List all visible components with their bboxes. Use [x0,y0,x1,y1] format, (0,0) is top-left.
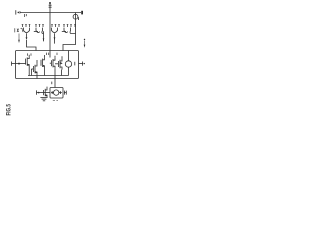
transistor M4 (row2) [58,56,62,75]
svg-text:FIG.5: FIG.5 [7,104,13,116]
ground [40,97,47,100]
node rail-right terminal [81,11,83,15]
numeral 20 with leader arrow [15,28,23,43]
power terminal VDD [49,2,52,7]
wire Q1 drain to bus [27,40,37,51]
label below bias box [53,99,58,101]
wire VDD rail [21,12,81,14]
box U20 (bias, bottom) [50,88,63,99]
transistor M2b (row2 center) [41,55,45,76]
wire current source down and left into box [63,27,76,51]
wire bias line from rail into box [49,13,51,58]
box U10 (main) [16,51,79,79]
transistor Q1 (row1 left) [24,28,30,40]
wire tail bus [28,75,69,77]
wire bottom left [37,92,51,94]
node rail small mark left [25,14,27,17]
label 40 (right of bias box) [64,91,66,95]
current source I2 (in box) [65,51,75,76]
transistor Q3 (row1) [52,28,58,44]
current source I1 [73,13,79,27]
current source I3 (bias) [51,90,62,95]
label ticks row2 [28,53,58,56]
label ticks row1 group B [51,24,76,27]
transistor Q2 (row1) [34,28,45,42]
wire VDD stub [49,4,51,13]
output terminal OUT [79,62,85,66]
label ticks row1 group A [22,24,44,27]
transistor Q4 (row1 right) [62,28,76,34]
node junction tick [51,82,53,85]
transistor M3 (row2) [50,56,59,88]
transistor M1 (row2) [25,55,30,76]
numeral 30 with leader arrow (right) [84,39,86,48]
node rail-left label 11 [16,10,21,14]
transistor M2 (row2) [31,60,37,79]
input terminal IN [12,62,26,66]
bottom input terminal [37,90,40,94]
transistor M5 (bottom) [44,87,48,98]
